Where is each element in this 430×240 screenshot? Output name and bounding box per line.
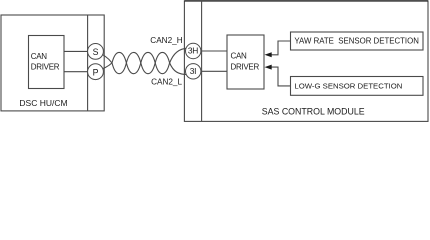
SAS connector strip line [201, 1, 203, 122]
svg-text:DRIVER: DRIVER [231, 62, 260, 71]
arrowhead into CAN driver (bottom) [265, 65, 272, 70]
svg-text:CAN: CAN [231, 52, 248, 61]
CAN driver box (DSC) [29, 36, 65, 89]
twisted pair wire CAN2_H (from S) [97, 52, 189, 74]
svg-text:YAW RATE SENSOR DETECTION: YAW RATE SENSOR DETECTION [294, 36, 419, 45]
wire CAN driver to pin P [64, 71, 90, 73]
svg-text:3H: 3H [188, 46, 198, 56]
wire YAW RATE box to CAN driver arrow [272, 41, 291, 55]
wire CAN driver to pin S [64, 50, 90, 52]
LOW-G sensor detection box [291, 77, 424, 96]
pin S circle [88, 44, 104, 60]
SAS module top edge (darker) [184, 0, 428, 2]
svg-text:S: S [93, 47, 99, 57]
svg-text:3I: 3I [190, 66, 197, 76]
CAN driver box (SAS) [227, 35, 264, 89]
svg-text:LOW-G SENSOR DETECTION: LOW-G SENSOR DETECTION [294, 81, 402, 90]
YAW RATE sensor detection box [291, 32, 424, 50]
arrowhead into CAN driver (top) [265, 52, 272, 57]
svg-text:CAN: CAN [31, 52, 48, 61]
svg-text:P: P [93, 67, 99, 77]
pin 3I circle [186, 64, 201, 79]
wire LOW-G box to CAN driver arrow [272, 67, 291, 86]
twisted pair wire CAN2_L (from P) [97, 48, 189, 74]
svg-text:DRIVER: DRIVER [31, 62, 60, 71]
DSC HU/CM module box [1, 15, 104, 111]
pin 3H circle [186, 43, 201, 58]
pin P circle [88, 64, 104, 80]
svg-text:DSC HU/CM: DSC HU/CM [19, 98, 67, 108]
svg-text:CAN2_H: CAN2_H [150, 36, 182, 45]
svg-text:CAN2_L: CAN2_L [151, 78, 182, 87]
wire pin 3I to CAN driver [201, 70, 227, 72]
SAS control module box [184, 1, 428, 122]
svg-text:SAS CONTROL MODULE: SAS CONTROL MODULE [262, 106, 365, 116]
wire pin 3H to CAN driver [201, 50, 227, 52]
DSC connector strip line [87, 15, 89, 111]
